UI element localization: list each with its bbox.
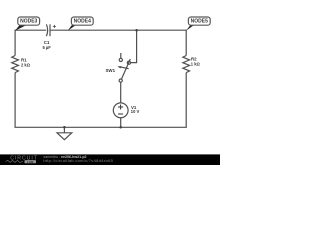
svg-text:SW1: SW1 bbox=[106, 68, 116, 73]
switch SW1 unused throw circle bbox=[119, 58, 122, 61]
wire top rail right segment bbox=[50, 29, 186, 31]
svg-text:LAB: LAB bbox=[27, 160, 34, 164]
wire top rail left segment bbox=[15, 29, 46, 31]
junction dot at V1 bottom on bottom rail bbox=[119, 126, 122, 129]
switch SW1 actuation arrow shaft bbox=[120, 67, 129, 69]
resistor R1 zigzag bbox=[12, 56, 19, 73]
node NODE5 box bbox=[188, 17, 210, 25]
switch SW1 common pole circle bbox=[119, 79, 122, 82]
switch SW1 arm bbox=[121, 59, 130, 79]
junction dot at ground on bottom rail bbox=[63, 126, 66, 129]
wire left rail upper bbox=[14, 30, 16, 56]
capacitor C1 polarity plus sign bbox=[53, 25, 56, 27]
footer CircuitLab logo LAB badge bbox=[25, 160, 37, 163]
wire switch common to V1 top bbox=[120, 82, 122, 103]
node NODE3 box bbox=[18, 17, 40, 25]
svg-text:5 µF: 5 µF bbox=[42, 45, 51, 50]
wire bottom rail bbox=[15, 126, 187, 128]
svg-text:http://circuitlab.com/c/7v48d4: http://circuitlab.com/c/7v48d4xv65 bbox=[43, 158, 113, 163]
node NODE3 flag tail bbox=[15, 25, 26, 31]
voltage source V1 plus sign bbox=[118, 106, 123, 108]
ground triangle bbox=[57, 133, 72, 140]
capacitor C1 curved plate bbox=[46, 24, 47, 36]
svg-text:NODE5: NODE5 bbox=[191, 19, 208, 25]
wire left rail lower bbox=[14, 73, 16, 128]
svg-text:NODE4: NODE4 bbox=[74, 19, 91, 25]
switch SW1 unused throw stub bbox=[120, 53, 122, 58]
voltage source V1 minus sign bbox=[118, 113, 123, 115]
svg-text:10 V: 10 V bbox=[131, 109, 140, 114]
node NODE5 flag tail bbox=[186, 25, 194, 31]
footer CircuitLab logo resistor zigzag bbox=[6, 160, 23, 162]
svg-text:NODE3: NODE3 bbox=[20, 19, 37, 25]
wire switch branch: junction down, then left to throw contact bbox=[131, 30, 137, 62]
wire right rail lower bbox=[185, 73, 187, 128]
capacitor C1 straight plate bbox=[49, 24, 51, 36]
svg-text:1 kΩ: 1 kΩ bbox=[191, 61, 201, 66]
node NODE4 flag tail bbox=[68, 25, 76, 31]
ground stub bbox=[63, 127, 65, 133]
node NODE4 box bbox=[71, 17, 93, 25]
junction dot at top rail / switch branch bbox=[135, 29, 138, 32]
svg-text:2 kΩ: 2 kΩ bbox=[21, 62, 31, 67]
wire right rail upper bbox=[185, 30, 187, 56]
wire V1 bottom to bottom rail bbox=[120, 118, 122, 128]
switch SW1 arrow head bbox=[117, 66, 121, 68]
voltage source V1 circle bbox=[113, 103, 128, 118]
switch SW1 right throw contact circle bbox=[127, 61, 130, 64]
footer black bar bbox=[0, 154, 220, 165]
resistor R2 zigzag bbox=[183, 56, 190, 73]
